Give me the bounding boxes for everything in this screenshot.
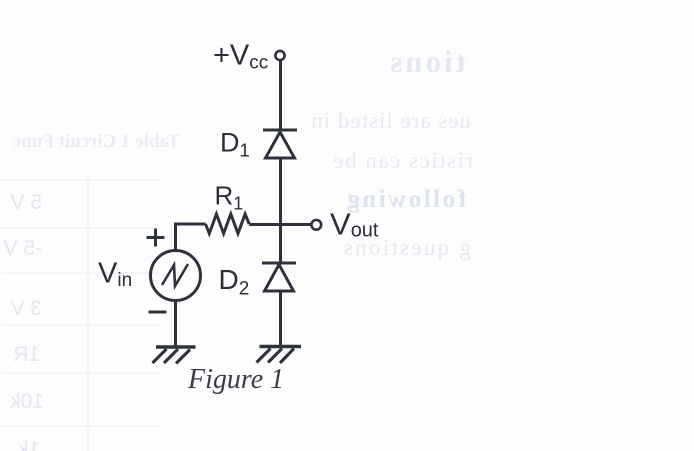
ground left hatch [153, 349, 191, 364]
svg-text:R1: R1 [215, 181, 244, 214]
source Vin circle [151, 251, 201, 301]
terminal Vout [311, 220, 321, 230]
wire D1 anode to node Vout [279, 158, 282, 224]
wire Vcc terminal to D1 cathode [279, 61, 282, 129]
source Vin waveform symbol [162, 264, 188, 286]
svg-text:1k: 1k [17, 438, 40, 451]
svg-text:tions: tions [387, 44, 466, 79]
svg-text:following: following [345, 186, 466, 213]
ground left bar [156, 345, 196, 348]
svg-text:+Vcc: +Vcc [213, 40, 268, 74]
wire Vin negative to ground [174, 301, 177, 347]
svg-text:1R: 1R [13, 343, 40, 366]
terminal +Vcc [275, 51, 284, 60]
ground right bar [260, 345, 302, 348]
minus sign of Vin [149, 311, 167, 314]
plus sign of Vin [147, 229, 165, 247]
svg-text:Figure 1: Figure 1 [187, 364, 284, 395]
ghost bleed-through layer (decorative) [2, 44, 473, 451]
svg-text:Vin: Vin [98, 258, 132, 292]
wire Vin positive to R1 [176, 224, 206, 250]
resistor R1 [206, 214, 250, 234]
diode D2 cathode bar [262, 262, 296, 265]
svg-text:D1: D1 [220, 128, 250, 161]
wire R1 to Vout terminal [249, 223, 311, 226]
wire D2 anode to ground [279, 291, 282, 345]
svg-text:D2: D2 [219, 264, 250, 300]
svg-text:-5 V: -5 V [3, 237, 42, 260]
svg-text:ristics can be: ristics can be [332, 148, 473, 173]
diode D2 triangle [265, 265, 294, 292]
svg-text:3 V: 3 V [10, 297, 42, 320]
wire node Vout to D2 cathode [279, 224, 282, 262]
diode D1 cathode bar [263, 129, 297, 132]
svg-text:5 V: 5 V [10, 191, 42, 214]
svg-text:Table 1 Circuit Func: Table 1 Circuit Func [13, 131, 180, 152]
ground right hatch [257, 349, 295, 364]
svg-text:10k: 10k [10, 390, 44, 413]
svg-text:ues are listed in: ues are listed in [310, 108, 471, 133]
diode D1 triangle [266, 132, 295, 158]
